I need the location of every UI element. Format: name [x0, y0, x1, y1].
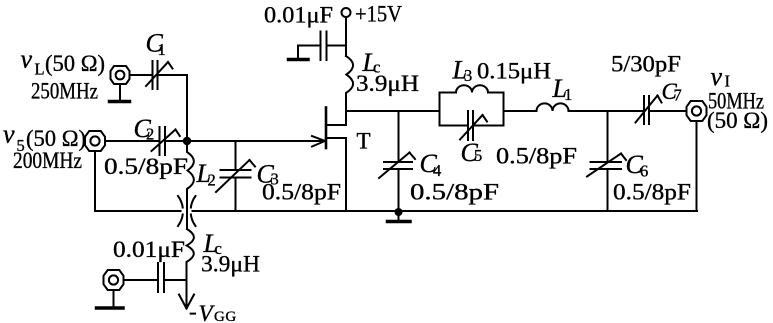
svg-text:5/30pF: 5/30pF	[611, 52, 681, 77]
wire	[504, 110, 537, 112]
capacitor C5	[460, 111, 487, 140]
wire	[124, 279, 158, 281]
svg-text:250MHz: 250MHz	[31, 79, 98, 104]
svg-text:GG: GG	[214, 309, 237, 323]
svg-text:3: 3	[464, 66, 472, 85]
svg-text:-: -	[189, 299, 197, 323]
svg-text:4: 4	[433, 161, 441, 180]
svg-text:0.5/8pF: 0.5/8pF	[613, 180, 691, 205]
capacitor C6	[587, 111, 626, 211]
svg-text:0.01μF: 0.01μF	[264, 3, 333, 28]
svg-text:T: T	[357, 129, 371, 154]
label C6	[626, 150, 649, 181]
wire (drain bus)	[346, 110, 440, 112]
ground bus (bottom)	[95, 210, 697, 212]
wire (gate rail)	[166, 140, 325, 142]
svg-text:2: 2	[146, 125, 154, 144]
wire	[650, 110, 687, 112]
inductor L3	[456, 85, 488, 92]
label L3	[452, 56, 473, 86]
inductor Lc (lower)	[187, 229, 194, 280]
wire	[159, 75, 188, 138]
svg-text:v: v	[3, 120, 15, 149]
label -Vgg	[189, 299, 237, 323]
label C4	[420, 149, 442, 180]
wire	[165, 279, 187, 281]
crossover (L2/Lc wire over ground bus)	[178, 196, 196, 226]
node A (junction dot)	[183, 137, 191, 145]
capacitor C3	[216, 141, 255, 211]
wire	[105, 140, 159, 142]
supply terminal +15V	[342, 8, 351, 17]
connector J1 (v_L input)	[111, 66, 130, 84]
label C3	[257, 160, 279, 189]
capacitor C7	[636, 96, 662, 125]
label C5	[461, 138, 483, 167]
svg-text:0.15μH: 0.15μH	[477, 59, 551, 84]
ground (below v_L connector)	[110, 85, 130, 102]
wire	[130, 74, 152, 76]
svg-text:(50 Ω): (50 Ω)	[707, 108, 768, 133]
svg-text:0.5/8pF: 0.5/8pF	[262, 180, 341, 205]
inductor Lc (upper)	[346, 56, 353, 125]
svg-text:6: 6	[640, 162, 648, 181]
ground (below C4)	[388, 215, 411, 222]
wire (source drop)	[345, 138, 347, 211]
svg-text:5: 5	[474, 146, 482, 165]
capacitor 0.01uF (bias bypass)	[158, 263, 164, 292]
capacitor C2	[152, 127, 180, 155]
label v_5 (50 ohm)	[3, 120, 86, 156]
svg-text:v: v	[21, 45, 33, 74]
label C7	[662, 79, 682, 105]
label Lc (upper)	[362, 48, 381, 77]
capacitor C4	[379, 111, 415, 211]
capacitor 0.01uF (supply bypass)	[298, 32, 346, 61]
wire (to -Vgg arrow)	[186, 280, 188, 306]
svg-text:0.01μF: 0.01μF	[113, 237, 185, 262]
svg-text:3.9μH: 3.9μH	[356, 71, 419, 96]
capacitor C1	[146, 61, 173, 89]
supply arrow -Vgg	[179, 295, 194, 309]
wire	[345, 17, 347, 56]
connector J2 (v_5 input)	[85, 131, 105, 151]
wire	[569, 110, 644, 112]
svg-text:(50 Ω): (50 Ω)	[45, 51, 105, 76]
svg-text:3.9μH: 3.9μH	[201, 252, 260, 277]
svg-text:1: 1	[564, 85, 572, 104]
svg-text:0.5/8pF: 0.5/8pF	[410, 180, 499, 205]
label v_I	[711, 62, 731, 91]
svg-text:200MHz: 200MHz	[13, 148, 82, 173]
svg-text:0.5/8pF: 0.5/8pF	[104, 154, 188, 179]
inductor L1	[537, 103, 569, 111]
svg-text:7: 7	[674, 86, 682, 105]
svg-text:L: L	[35, 60, 45, 79]
label L2	[196, 159, 216, 190]
svg-text:2: 2	[208, 171, 216, 190]
wire (output shield drop)	[696, 121, 698, 211]
label C2	[134, 114, 155, 144]
svg-text:0.5/8pF: 0.5/8pF	[496, 144, 577, 169]
node B (C4/ground bus dot)	[395, 208, 403, 216]
label L1	[552, 74, 573, 104]
label C1	[146, 29, 166, 60]
ground (below bias connector)	[97, 290, 124, 308]
gate arrowhead	[312, 136, 325, 147]
inductor L2	[187, 145, 194, 229]
svg-text:v: v	[711, 62, 723, 91]
wire (v_5 shield drop)	[94, 151, 96, 211]
tank circuit box (L3/C5)	[440, 93, 504, 126]
svg-text:1: 1	[158, 40, 166, 59]
label v_L (50 ohm)	[21, 45, 106, 79]
svg-text:+15V: +15V	[355, 2, 402, 27]
connector J3 (bias feed)	[104, 270, 124, 290]
connector J4 (v_I output)	[687, 101, 707, 121]
ground (supply bypass)	[289, 58, 309, 62]
label Lc (lower)	[203, 229, 222, 258]
transistor T (JFET)	[326, 108, 346, 149]
